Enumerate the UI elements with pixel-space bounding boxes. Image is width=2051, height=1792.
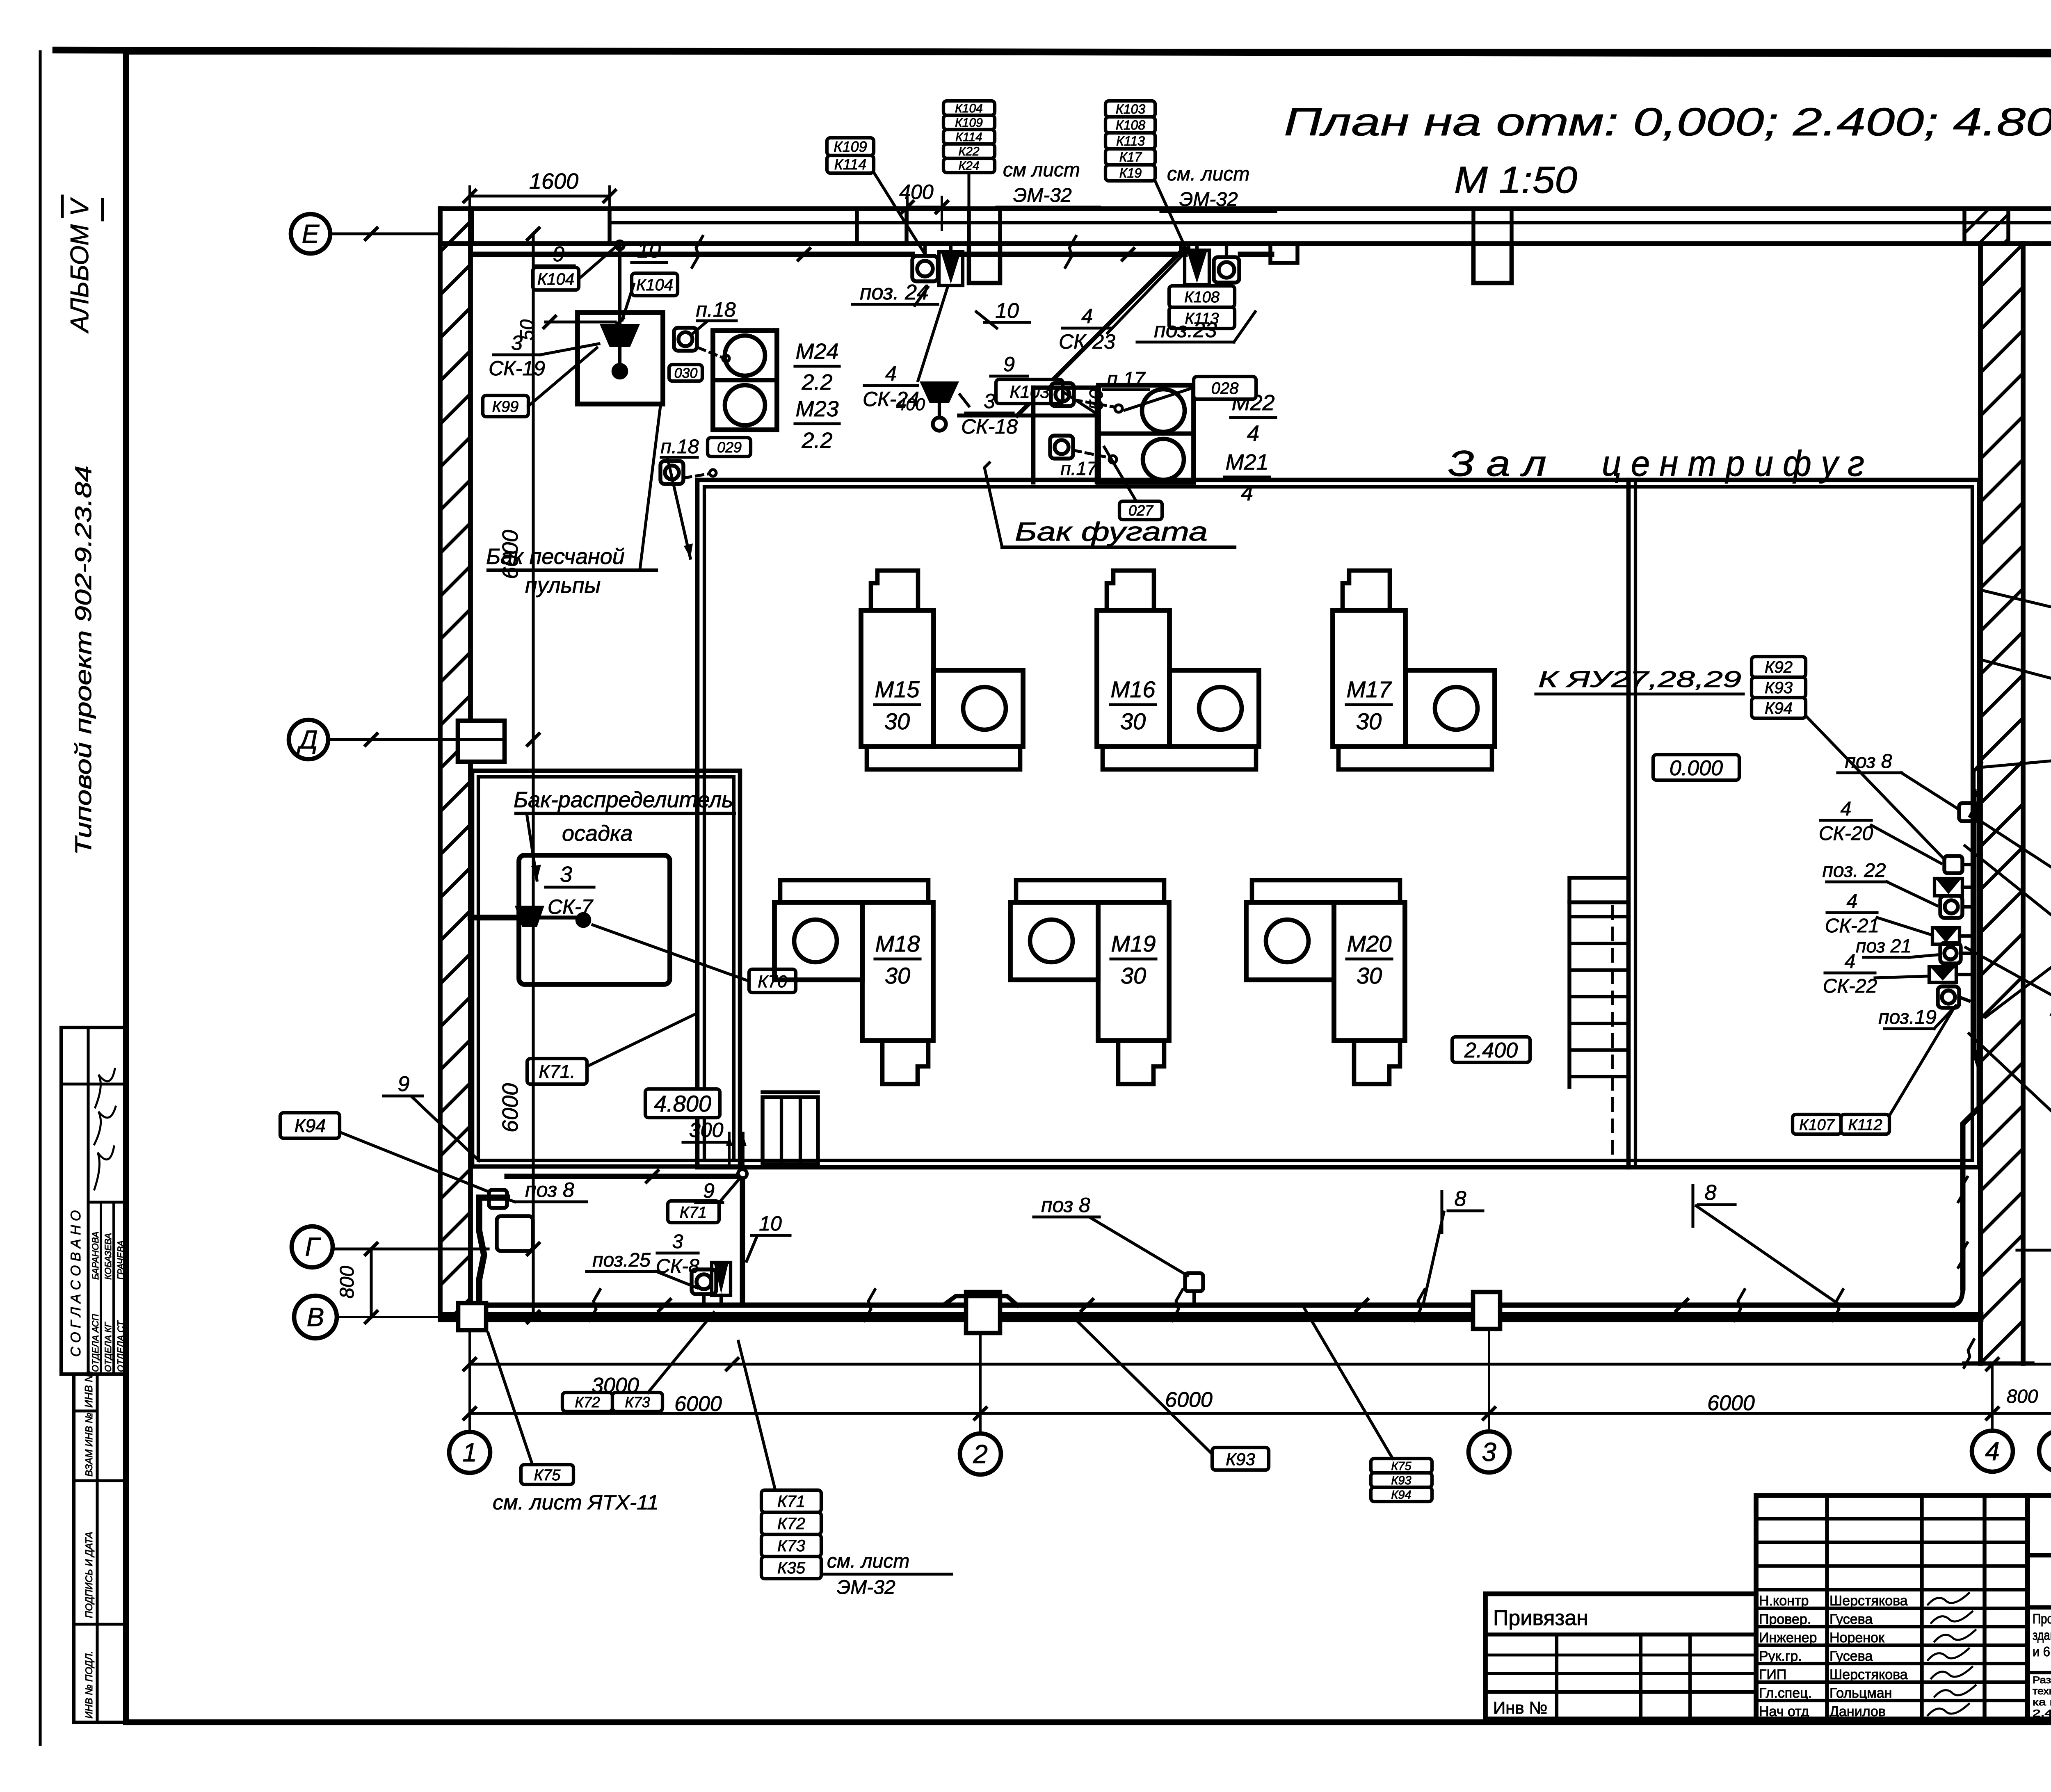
svg-text:8: 8 bbox=[1705, 1181, 1717, 1205]
svg-text:К104: К104 bbox=[537, 270, 574, 288]
svg-text:К103: К103 bbox=[1116, 102, 1145, 116]
svg-text:Шерстякова: Шерстякова bbox=[1829, 1593, 1908, 1609]
svg-text:М18: М18 bbox=[875, 931, 920, 956]
svg-text:КОБАЗЕВА: КОБАЗЕВА bbox=[103, 1233, 113, 1280]
svg-text:М16: М16 bbox=[1111, 676, 1156, 702]
svg-text:800: 800 bbox=[2007, 1386, 2038, 1407]
svg-text:К22: К22 bbox=[958, 145, 979, 158]
svg-text:К109: К109 bbox=[955, 116, 983, 130]
svg-text:2.2: 2.2 bbox=[801, 428, 832, 453]
svg-text:К73: К73 bbox=[625, 1394, 650, 1411]
svg-text:К107: К107 bbox=[1799, 1116, 1835, 1134]
svg-text:п.17: п.17 bbox=[1060, 458, 1098, 479]
svg-text:К35: К35 bbox=[777, 1559, 806, 1577]
svg-text:3: 3 bbox=[560, 862, 572, 887]
svg-text:9: 9 bbox=[1003, 353, 1015, 376]
svg-text:К112: К112 bbox=[1848, 1116, 1882, 1134]
svg-text:здание с 4 воздуходувками ТВ-8: здание с 4 воздуходувками ТВ-80-16 bbox=[2033, 1628, 2051, 1643]
svg-text:К104: К104 bbox=[955, 102, 983, 115]
svg-text:ГИП: ГИП bbox=[1759, 1667, 1786, 1682]
svg-text:10: 10 bbox=[995, 299, 1019, 323]
svg-text:4: 4 bbox=[1247, 421, 1259, 446]
svg-text:К ЯУ27,28,29: К ЯУ27,28,29 bbox=[1538, 666, 1741, 692]
svg-text:К109: К109 bbox=[834, 138, 867, 155]
svg-text:9: 9 bbox=[703, 1179, 715, 1202]
svg-text:К108: К108 bbox=[1116, 118, 1145, 132]
svg-text:осадка: осадка bbox=[562, 821, 633, 846]
svg-text:поз 21: поз 21 bbox=[1856, 935, 1912, 956]
svg-text:027: 027 bbox=[1128, 502, 1154, 519]
svg-text:поз 8: поз 8 bbox=[1041, 1194, 1090, 1217]
svg-text:поз 8: поз 8 bbox=[525, 1178, 574, 1201]
svg-text:К94: К94 bbox=[1765, 699, 1793, 717]
svg-text:К71.: К71. bbox=[539, 1061, 575, 1082]
svg-text:Е: Е bbox=[302, 219, 320, 249]
svg-text:Привязан: Привязан bbox=[1493, 1606, 1588, 1630]
svg-text:30: 30 bbox=[1121, 963, 1146, 988]
svg-text:Бак фугата: Бак фугата bbox=[1015, 517, 1208, 546]
svg-text:К108: К108 bbox=[1184, 289, 1220, 306]
svg-text:пульпы: пульпы bbox=[525, 573, 601, 598]
svg-text:ИНВ № ПОДЛ.: ИНВ № ПОДЛ. bbox=[84, 1651, 95, 1719]
svg-text:ка кабеля. План на отм 0.000,: ка кабеля. План на отм 0.000, bbox=[2033, 1697, 2051, 1708]
svg-text:п.18: п.18 bbox=[696, 298, 735, 321]
svg-text:поз.19: поз.19 bbox=[1878, 1007, 1937, 1028]
svg-text:К71: К71 bbox=[777, 1493, 805, 1511]
svg-text:30: 30 bbox=[885, 963, 910, 988]
svg-text:9: 9 bbox=[398, 1072, 410, 1096]
svg-text:К73: К73 bbox=[777, 1537, 805, 1555]
svg-text:4: 4 bbox=[1847, 890, 1858, 912]
svg-text:см. лист ЯТХ-11: см. лист ЯТХ-11 bbox=[493, 1491, 659, 1514]
svg-text:Данилов: Данилов bbox=[1829, 1704, 1886, 1719]
svg-text:ОТДЕЛА СТ: ОТДЕЛА СТ bbox=[116, 1320, 126, 1372]
svg-text:и 6 центрифугами ОГШ-352К-03: и 6 центрифугами ОГШ-352К-03 bbox=[2033, 1644, 2051, 1659]
svg-text:М19: М19 bbox=[1111, 931, 1156, 956]
svg-text:6000: 6000 bbox=[674, 1392, 722, 1416]
svg-text:30: 30 bbox=[884, 708, 910, 734]
svg-text:К94: К94 bbox=[295, 1115, 326, 1136]
svg-text:028: 028 bbox=[1211, 379, 1239, 397]
svg-text:К103: К103 bbox=[1010, 382, 1049, 402]
svg-text:030: 030 bbox=[674, 365, 698, 381]
svg-text:ВЗАМ ИНВ №: ВЗАМ ИНВ № bbox=[84, 1413, 95, 1477]
svg-text:Гусева: Гусева bbox=[1829, 1648, 1873, 1664]
svg-text:План на отм: 0,000; 2.400;: План на отм: 0,000; 2.400; 4.800 bbox=[1284, 100, 2051, 144]
svg-text:4: 4 bbox=[885, 362, 897, 385]
svg-text:Производственно-вспомогательно: Производственно-вспомогательное bbox=[2033, 1611, 2051, 1626]
svg-text:п.17: п.17 bbox=[1107, 368, 1146, 390]
svg-text:Г: Г bbox=[305, 1232, 321, 1262]
svg-text:V: V bbox=[66, 197, 94, 216]
svg-text:3: 3 bbox=[672, 1231, 683, 1253]
svg-text:0.000: 0.000 bbox=[1670, 756, 1723, 780]
svg-text:Размещение приборов и устройст: Размещение приборов и устройств bbox=[2033, 1675, 2051, 1686]
svg-text:К114: К114 bbox=[955, 130, 982, 144]
svg-text:ОТДЕЛА АСП: ОТДЕЛА АСП bbox=[90, 1314, 100, 1372]
svg-text:К92: К92 bbox=[1765, 658, 1793, 676]
svg-text:К75: К75 bbox=[1391, 1460, 1411, 1473]
svg-text:Инженер: Инженер bbox=[1759, 1630, 1817, 1646]
svg-text:3: 3 bbox=[511, 331, 523, 354]
svg-text:ГРАЧЕВА: ГРАЧЕВА bbox=[116, 1240, 126, 1280]
svg-text:В: В bbox=[307, 1302, 324, 1332]
svg-text:6000: 6000 bbox=[498, 1083, 523, 1132]
svg-text:4: 4 bbox=[1845, 951, 1856, 972]
svg-text:ПОДПИСЬ И ДАТА: ПОДПИСЬ И ДАТА bbox=[84, 1532, 95, 1618]
svg-text:4: 4 bbox=[1985, 1436, 2000, 1466]
svg-text:Норенок: Норенок bbox=[1829, 1630, 1885, 1646]
svg-text:3: 3 bbox=[984, 390, 995, 413]
svg-text:300: 300 bbox=[689, 1119, 724, 1141]
svg-text:К75: К75 bbox=[534, 1467, 561, 1484]
svg-text:технологического контроля и пр: технологического контроля и прокл. bbox=[2033, 1686, 2051, 1697]
svg-text:СК-21: СК-21 bbox=[1825, 915, 1879, 937]
svg-text:029: 029 bbox=[717, 439, 742, 456]
svg-text:К17: К17 bbox=[1119, 150, 1142, 164]
svg-text:СК-19: СК-19 bbox=[489, 357, 545, 380]
svg-text:СК-18: СК-18 bbox=[961, 415, 1018, 438]
svg-text:Типовой проект 902-9.23.84: Типовой проект 902-9.23.84 bbox=[70, 466, 96, 855]
svg-text:см. лист: см. лист bbox=[1167, 163, 1249, 185]
svg-text:4: 4 bbox=[1081, 305, 1093, 328]
svg-text:400: 400 bbox=[899, 180, 934, 203]
svg-text:2.2: 2.2 bbox=[801, 370, 832, 395]
svg-text:К93: К93 bbox=[1391, 1474, 1411, 1487]
svg-text:см. лист: см. лист bbox=[827, 1550, 909, 1572]
svg-text:СК-20: СК-20 bbox=[1819, 823, 1873, 845]
svg-text:10: 10 bbox=[759, 1212, 782, 1235]
svg-text:ЭМ-32: ЭМ-32 bbox=[837, 1577, 895, 1598]
svg-text:К24: К24 bbox=[958, 159, 979, 173]
svg-text:Гл.спец.: Гл.спец. bbox=[1759, 1685, 1812, 1701]
svg-text:поз. 22: поз. 22 bbox=[1823, 860, 1886, 881]
svg-text:ц е н т р и ф у г: ц е н т р и ф у г bbox=[1602, 443, 1864, 484]
svg-text:АЛЬБОМ: АЛЬБОМ bbox=[66, 224, 94, 334]
svg-text:4: 4 bbox=[1241, 481, 1253, 505]
svg-text:М24: М24 bbox=[795, 339, 838, 364]
svg-text:Гусева: Гусева bbox=[1829, 1612, 1873, 1627]
svg-text:Бак-распределитель: Бак-распределитель bbox=[514, 788, 733, 812]
svg-text:Рук.гр.: Рук.гр. bbox=[1759, 1648, 1802, 1664]
svg-text:К114: К114 bbox=[834, 156, 867, 173]
svg-text:К94: К94 bbox=[1391, 1488, 1411, 1502]
svg-text:6000: 6000 bbox=[1707, 1391, 1755, 1415]
svg-text:см лист: см лист bbox=[1003, 159, 1080, 181]
svg-text:К72: К72 bbox=[575, 1394, 600, 1411]
svg-text:Шерстякова: Шерстякова bbox=[1829, 1667, 1908, 1682]
svg-text:Н.контр: Н.контр bbox=[1759, 1593, 1809, 1609]
svg-text:400: 400 bbox=[896, 395, 925, 414]
svg-text:Инв №: Инв № bbox=[1493, 1698, 1547, 1717]
svg-text:СК-22: СК-22 bbox=[1823, 975, 1877, 997]
svg-text:поз 8: поз 8 bbox=[1845, 751, 1892, 772]
svg-text:2: 2 bbox=[973, 1439, 988, 1469]
svg-text:ИНВ №: ИНВ № bbox=[82, 1371, 95, 1408]
svg-text:С О Г Л А С О В А Н О: С О Г Л А С О В А Н О bbox=[68, 1210, 84, 1357]
svg-text:К93: К93 bbox=[1765, 679, 1793, 697]
svg-text:К113: К113 bbox=[1116, 134, 1145, 148]
svg-text:К19: К19 bbox=[1119, 166, 1142, 180]
svg-text:К71: К71 bbox=[680, 1204, 707, 1221]
svg-text:1600: 1600 bbox=[529, 169, 578, 194]
svg-text:Гольцман: Гольцман bbox=[1829, 1685, 1892, 1701]
svg-text:2.400; 4.800 Зал центрифуг: 2.400; 4.800 Зал центрифуг bbox=[2033, 1708, 2051, 1719]
svg-text:1: 1 bbox=[462, 1438, 477, 1467]
svg-text:М21: М21 bbox=[1225, 450, 1268, 475]
svg-text:К72: К72 bbox=[777, 1515, 805, 1533]
svg-text:М20: М20 bbox=[1347, 931, 1392, 956]
svg-text:4: 4 bbox=[1841, 798, 1852, 820]
svg-text:3: 3 bbox=[1482, 1437, 1496, 1467]
svg-text:Д: Д bbox=[297, 725, 317, 754]
svg-text:30: 30 bbox=[1120, 708, 1146, 734]
svg-text:2.400: 2.400 bbox=[1464, 1039, 1518, 1062]
svg-text:6000: 6000 bbox=[1165, 1388, 1213, 1412]
svg-text:поз.23: поз.23 bbox=[1154, 318, 1217, 342]
svg-text:М 1:50: М 1:50 bbox=[1454, 159, 1577, 201]
svg-text:ЭМ-32: ЭМ-32 bbox=[1013, 185, 1072, 206]
svg-text:30: 30 bbox=[1357, 963, 1382, 988]
svg-text:БАРАНОВА: БАРАНОВА bbox=[90, 1231, 100, 1280]
svg-text:6000: 6000 bbox=[498, 530, 523, 579]
svg-text:п.18: п.18 bbox=[660, 436, 699, 458]
svg-text:К93: К93 bbox=[1226, 1450, 1255, 1469]
svg-text:К99: К99 bbox=[492, 398, 519, 415]
svg-text:4.800: 4.800 bbox=[654, 1091, 711, 1116]
svg-text:Провер.: Провер. bbox=[1759, 1612, 1811, 1627]
svg-text:10: 10 bbox=[637, 239, 661, 263]
svg-text:8: 8 bbox=[1455, 1187, 1466, 1211]
svg-text:М17: М17 bbox=[1347, 676, 1392, 702]
svg-text:ОТДЕЛА КГ: ОТДЕЛА КГ bbox=[103, 1322, 113, 1372]
svg-text:М15: М15 bbox=[875, 676, 920, 702]
svg-text:ЭМ-32: ЭМ-32 bbox=[1179, 189, 1238, 210]
svg-text:Нач отд: Нач отд bbox=[1759, 1704, 1809, 1719]
svg-text:К104: К104 bbox=[636, 276, 673, 294]
svg-text:М23: М23 bbox=[795, 397, 838, 421]
svg-text:30: 30 bbox=[1356, 708, 1382, 734]
svg-text:поз.25: поз.25 bbox=[592, 1249, 651, 1271]
svg-text:800: 800 bbox=[336, 1266, 358, 1299]
svg-text:З а л: З а л bbox=[1448, 443, 1546, 484]
